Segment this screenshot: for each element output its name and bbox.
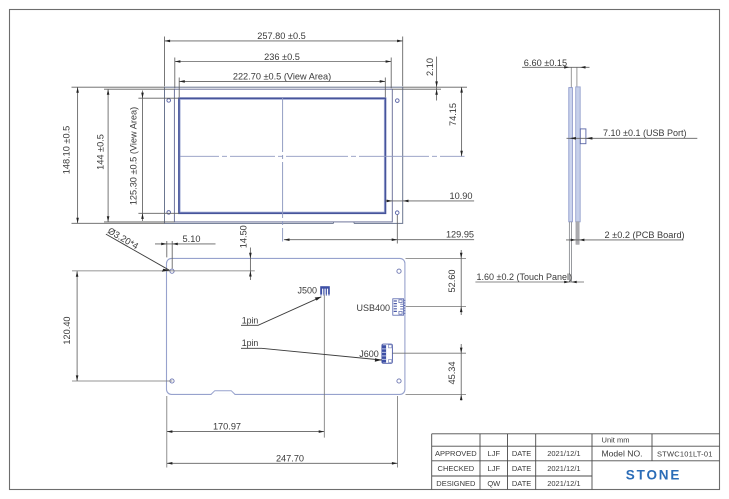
dimension 10.90 right bbox=[385, 191, 474, 202]
svg-text:170.97: 170.97 bbox=[213, 422, 241, 432]
dimension 257.80±0.5 top width bbox=[165, 31, 403, 86]
svg-text:10.90: 10.90 bbox=[450, 191, 473, 201]
front view view-area rect bbox=[179, 98, 386, 213]
svg-text:CHECKED: CHECKED bbox=[438, 464, 475, 473]
side view touch panel tail bbox=[569, 222, 571, 282]
front view mounting hole top-right bbox=[396, 99, 400, 103]
back view right bottom extension bbox=[397, 396, 399, 468]
svg-text:DESIGNED: DESIGNED bbox=[436, 479, 476, 488]
dimension 236±0.5 bbox=[175, 52, 391, 88]
dimension Ø3.20*4 leader bbox=[106, 226, 170, 272]
svg-text:1.60 ±0.2 (Touch Panel): 1.60 ±0.2 (Touch Panel) bbox=[477, 272, 573, 282]
svg-text:14.50: 14.50 bbox=[239, 225, 249, 248]
svg-text:2.10: 2.10 bbox=[425, 58, 435, 76]
back view top edge right extension bbox=[406, 257, 467, 259]
back view hole top-right bbox=[397, 269, 401, 273]
svg-text:Model NO.: Model NO. bbox=[601, 449, 642, 459]
dimension 247.70 bbox=[167, 453, 398, 464]
label 1pin lower with leader to J600 bbox=[241, 338, 382, 361]
svg-text:45.34: 45.34 bbox=[447, 362, 457, 385]
svg-text:120.40: 120.40 bbox=[62, 316, 72, 344]
USB400 centerline extension bbox=[406, 306, 466, 308]
front view horizontal centerline bbox=[180, 155, 465, 157]
front view bottom edge notch bbox=[334, 222, 355, 225]
svg-text:DATE: DATE bbox=[512, 449, 531, 458]
dimension 5.10 bbox=[155, 234, 216, 269]
dimension 74.15 right bbox=[448, 87, 463, 156]
svg-text:247.70: 247.70 bbox=[276, 453, 304, 463]
svg-text:148.10 ±0.5: 148.10 ±0.5 bbox=[62, 126, 72, 174]
dimension 6.60±0.15 bbox=[522, 58, 590, 69]
back view hole top-left bbox=[170, 269, 174, 273]
side view top extension lines bbox=[571, 67, 577, 87]
svg-text:LJF: LJF bbox=[488, 464, 501, 473]
dimension 148.10±0.5 left height bbox=[62, 87, 165, 223]
label 1pin upper with leader to J500 bbox=[241, 297, 321, 326]
svg-text:52.60: 52.60 bbox=[447, 270, 457, 293]
side view module body bbox=[569, 87, 580, 222]
svg-text:1pin: 1pin bbox=[242, 338, 259, 348]
connector J500 bbox=[297, 286, 329, 296]
svg-text:DATE: DATE bbox=[512, 464, 531, 473]
svg-text:USB400: USB400 bbox=[356, 303, 390, 313]
svg-text:2021/12/1: 2021/12/1 bbox=[547, 449, 580, 458]
svg-text:125.30 ±0.5 (View Area): 125.30 ±0.5 (View Area) bbox=[129, 107, 139, 205]
dimension 129.95 below front view bbox=[284, 215, 474, 244]
J600 centerline extension bbox=[392, 352, 466, 354]
connector J600 bbox=[359, 344, 392, 363]
svg-text:236 ±0.5: 236 ±0.5 bbox=[264, 52, 300, 62]
svg-text:2 ±0.2 (PCB Board): 2 ±0.2 (PCB Board) bbox=[605, 230, 685, 240]
front view vertical centerline bbox=[282, 98, 284, 242]
dimension 52.60 bbox=[447, 250, 463, 315]
svg-text:257.80 ±0.5: 257.80 ±0.5 bbox=[257, 31, 305, 41]
dimension 120.40 left of back view bbox=[62, 271, 78, 381]
back view hole bottom-right bbox=[397, 379, 401, 383]
dimension 222.70±0.5 (View Area) bbox=[179, 72, 385, 98]
svg-text:129.95: 129.95 bbox=[446, 230, 474, 240]
svg-text:STWC101LT-01: STWC101LT-01 bbox=[657, 449, 713, 458]
connector USB400 bbox=[356, 299, 405, 315]
side view USB port bump bbox=[580, 129, 586, 144]
front view outer bezel rect bbox=[165, 87, 403, 223]
side view PCB stub bbox=[576, 222, 579, 245]
STONE logo bbox=[626, 468, 682, 483]
svg-text:LJF: LJF bbox=[488, 449, 501, 458]
svg-text:7.10 ±0.1 (USB Port): 7.10 ±0.1 (USB Port) bbox=[603, 128, 686, 138]
svg-text:QW: QW bbox=[487, 479, 501, 488]
svg-text:222.70 ±0.5 (View Area): 222.70 ±0.5 (View Area) bbox=[233, 72, 331, 82]
front view glass rect bbox=[174, 89, 392, 222]
svg-text:J500: J500 bbox=[297, 286, 317, 296]
dimension 14.50 bbox=[239, 225, 252, 280]
back view left edge bottom extension bbox=[166, 396, 168, 468]
svg-text:144 ±0.5: 144 ±0.5 bbox=[95, 134, 105, 170]
svg-text:DATE: DATE bbox=[512, 479, 531, 488]
svg-text:2021/12/1: 2021/12/1 bbox=[547, 479, 580, 488]
back view bottom edge right extension bbox=[406, 394, 467, 396]
svg-text:5.10: 5.10 bbox=[183, 234, 201, 244]
dimension 2.10 top-right bbox=[392, 57, 467, 101]
hole centerline row top bbox=[72, 270, 255, 272]
back view board outline bbox=[167, 258, 405, 394]
dimension 170.97 bbox=[167, 422, 324, 433]
J500 pin1 extension line bbox=[323, 294, 325, 437]
svg-text:2021/12/1: 2021/12/1 bbox=[547, 464, 580, 473]
front view mounting hole bottom-left bbox=[167, 211, 171, 215]
dimension 144±0.5 bbox=[95, 89, 174, 222]
dimension 2±0.2 (PCB Board) bbox=[566, 230, 685, 241]
svg-text:Unit mm: Unit mm bbox=[602, 436, 630, 445]
title block table grid bbox=[432, 434, 720, 490]
front view mounting hole top-left bbox=[167, 99, 171, 103]
svg-text:APPROVED: APPROVED bbox=[435, 449, 477, 458]
dimension 1.60±0.2 (Touch Panel) bbox=[475, 272, 584, 283]
svg-text:1pin: 1pin bbox=[242, 316, 259, 326]
back view hole bottom-left bbox=[170, 379, 174, 383]
svg-text:74.15: 74.15 bbox=[448, 103, 458, 126]
dimension 45.34 bbox=[447, 344, 463, 401]
hole centerline row bottom bbox=[72, 380, 172, 382]
svg-text:STONE: STONE bbox=[626, 468, 682, 483]
back view bottom notch bbox=[211, 391, 235, 396]
front view mounting hole bottom-right bbox=[395, 211, 399, 215]
dimension 7.10±0.1 (USB Port) bbox=[567, 128, 698, 139]
svg-text:6.60 ±0.15: 6.60 ±0.15 bbox=[524, 58, 567, 68]
title block row texts bbox=[435, 436, 713, 488]
dimension 125.30±0.5 (View Area) bbox=[129, 91, 179, 222]
